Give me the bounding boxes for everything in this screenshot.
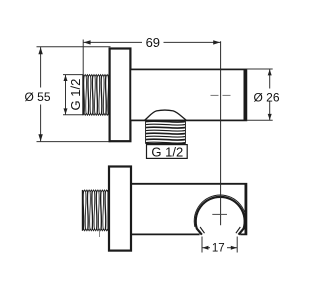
body tube (side view) (130, 69, 246, 120)
svg-text:G 1/2: G 1/2 (151, 144, 183, 159)
holder ring right lip inner edge (236, 227, 240, 233)
17 dimension (201, 237, 203, 253)
holder ring outer highlight arc (194, 195, 246, 227)
outlet thread (downward) (146, 120, 185, 123)
body (bottom view) (131, 184, 246, 235)
holder ring left lip inner edge (200, 227, 204, 233)
69 dimension (top) (83, 41, 142, 43)
wall thread (side view) (82, 75, 85, 114)
outlet boss hump (145, 110, 187, 120)
flange (side view) (110, 49, 131, 142)
flange (bottom view) (109, 167, 131, 251)
small centre tick below thread (99, 231, 101, 237)
diameter 55 dimension (40, 47, 42, 88)
diameter 26 dimension (247, 68, 273, 70)
svg-text:69: 69 (146, 35, 160, 50)
hook centerline (vertical) (220, 41, 222, 225)
svg-text:Ø 55: Ø 55 (24, 90, 50, 104)
69 extension line (thread tip plane) (82, 40, 84, 76)
G1/2 dimension (wall thread) (65, 75, 67, 115)
body centreline dashes (side view) (211, 94, 219, 96)
diameter 55 extension lines (37, 46, 111, 48)
svg-text:Ø 26: Ø 26 (253, 90, 279, 104)
body end cap (244, 70, 247, 120)
G 1/2 label box (147, 145, 188, 159)
holder centre cross (212, 213, 227, 215)
svg-text:G 1/2: G 1/2 (68, 79, 83, 111)
wall thread (bottom view) (82, 191, 85, 230)
holder ring (C shape): main contour (arc + outer lip edges) (196, 197, 245, 235)
svg-text:17: 17 (212, 242, 225, 254)
